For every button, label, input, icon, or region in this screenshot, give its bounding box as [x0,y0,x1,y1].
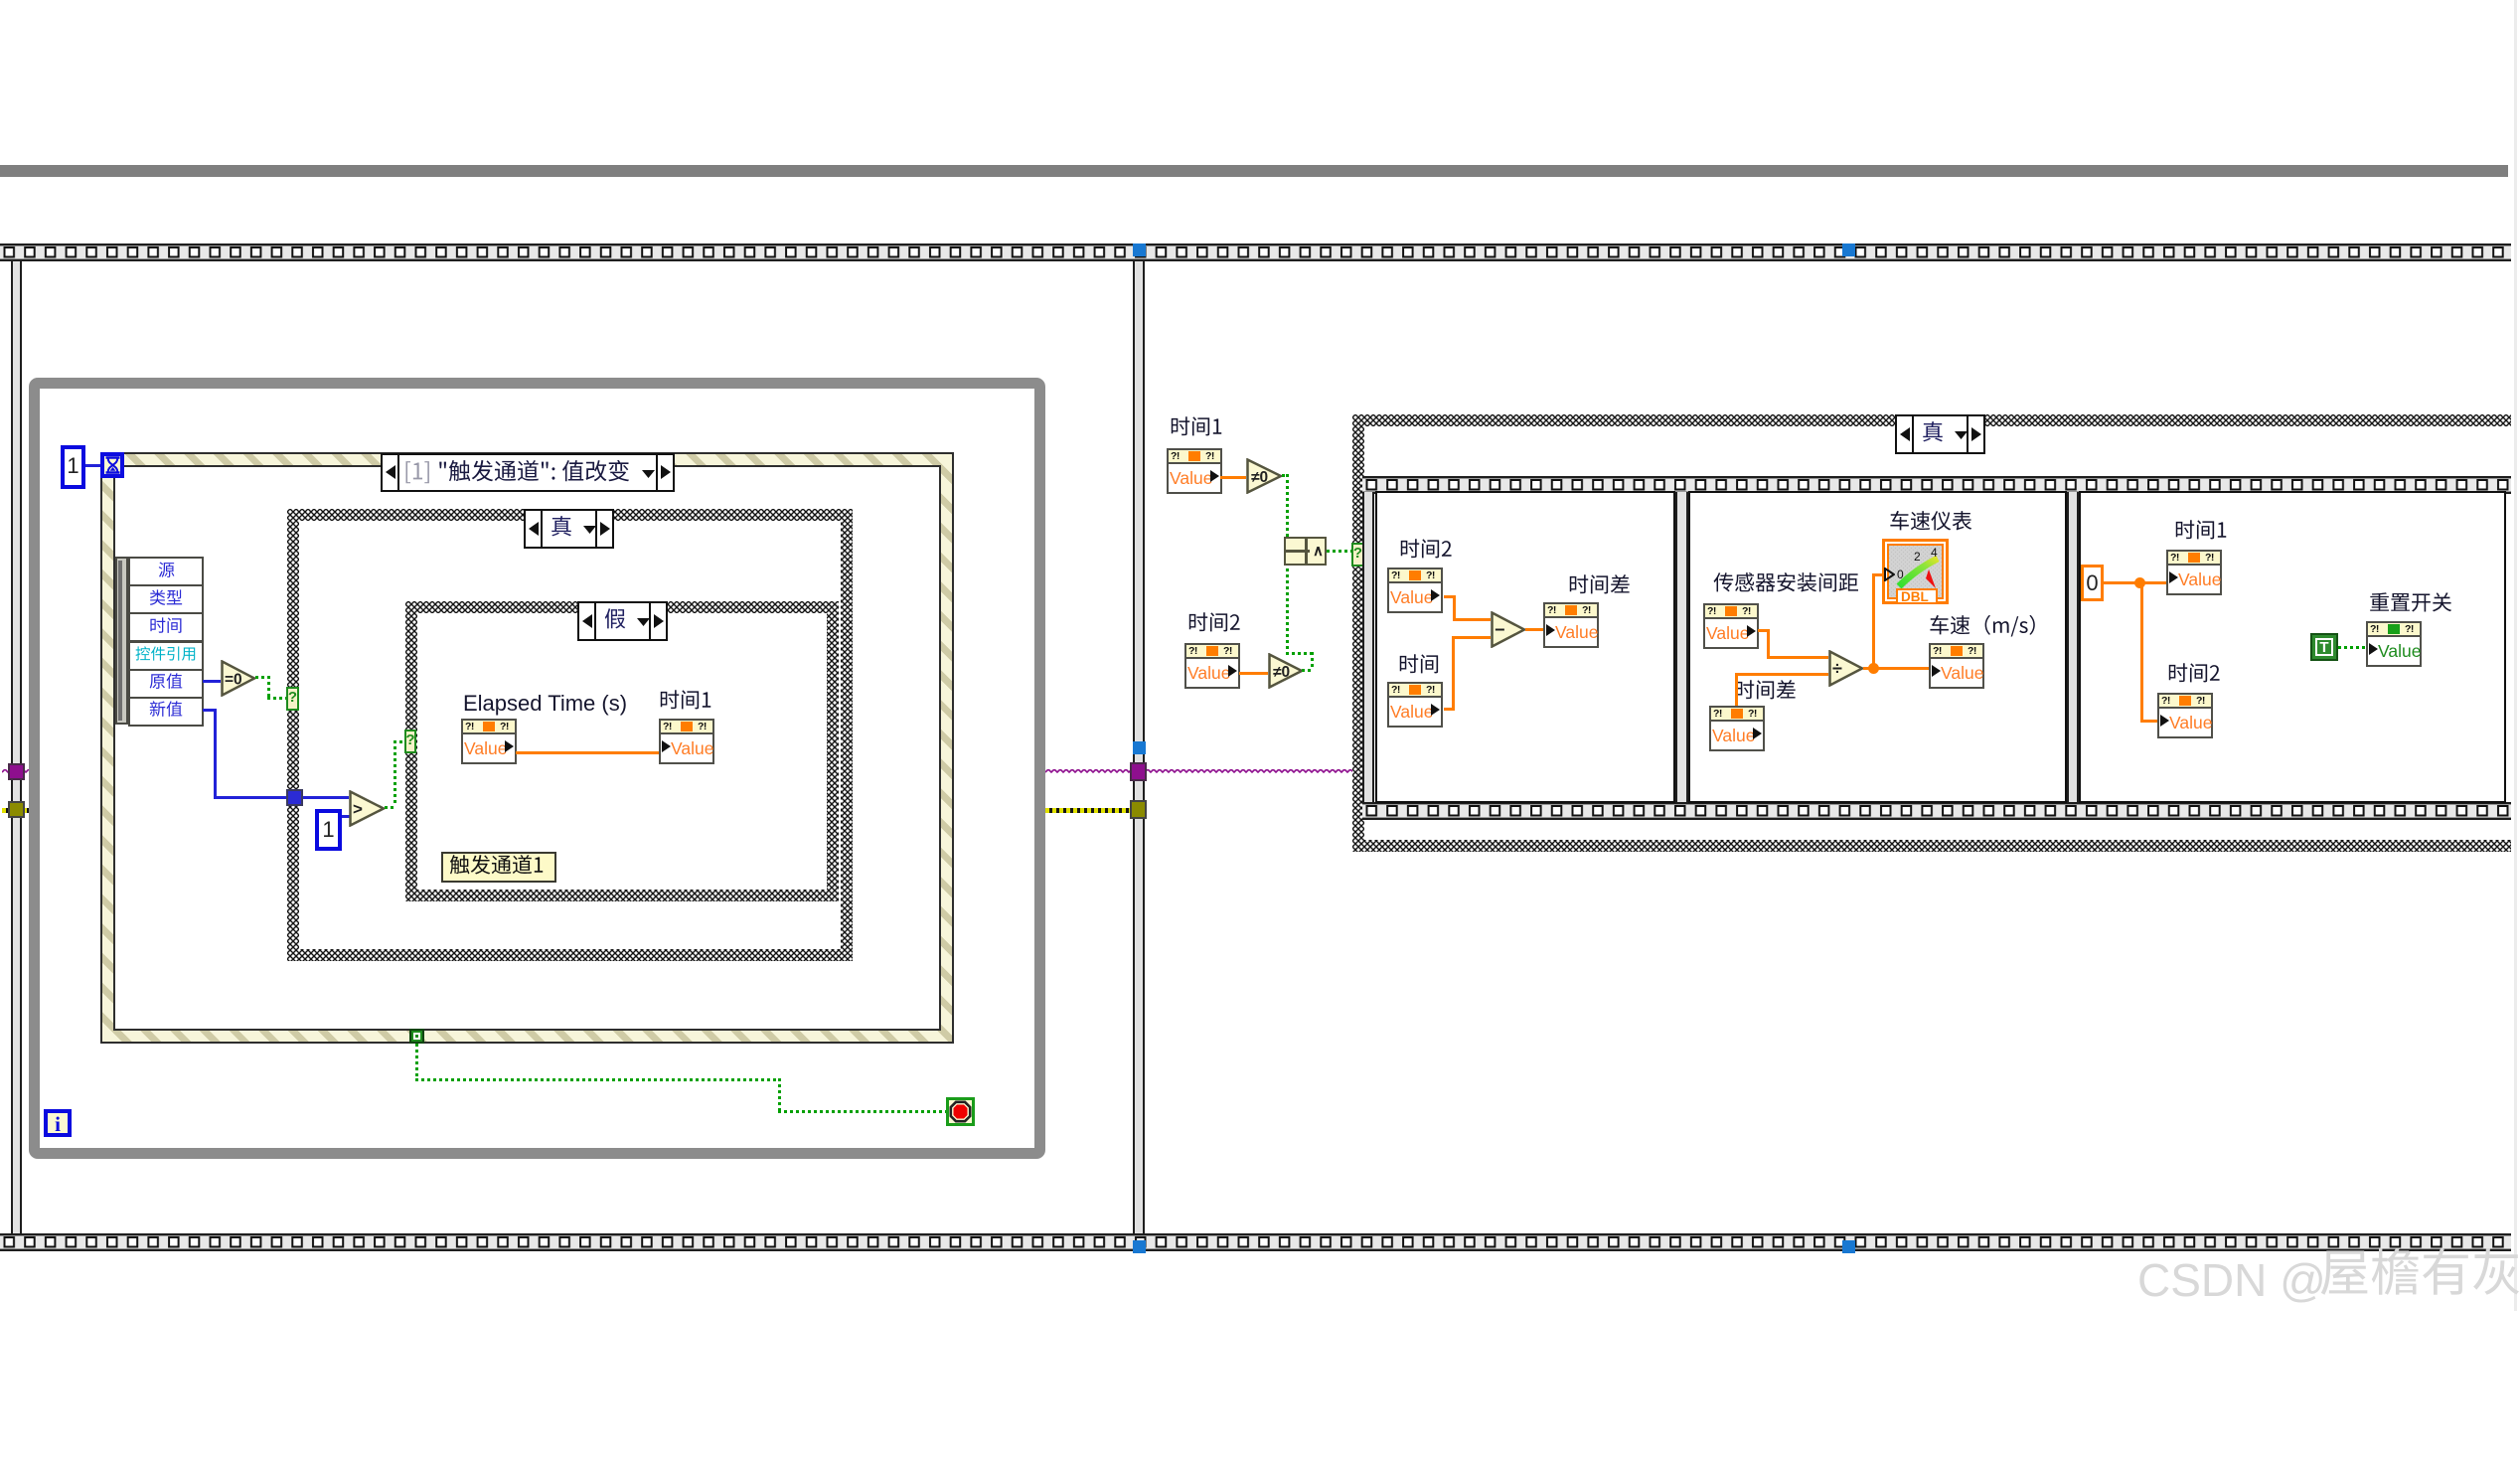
while loop [29,378,1045,1159]
free label 触发通道1 [441,852,556,883]
case structure false (inner) [405,601,839,901]
svg-text:2: 2 [1914,550,1921,564]
wire [2140,720,2157,723]
wire [1525,628,1543,631]
wire [516,751,659,754]
wire [1758,629,1770,632]
wire [1220,476,1246,479]
right case selector tunnel [1351,543,1364,567]
svg-text:=0: =0 [225,672,242,689]
flat sequence left divider [11,261,22,1233]
wire [394,740,405,743]
window edge line [2514,0,2517,1311]
sequence frame [1688,491,2067,803]
wire [214,709,217,796]
boolean constant T [2310,633,2338,661]
wire [1311,652,1314,669]
wire [203,709,217,712]
flat sequence bottom border [0,1233,2511,1251]
error wire (dark yellow) [2,808,29,813]
wire [1453,595,1456,618]
label 时间2 (right frame) [1187,613,1241,637]
label 时间差 f1 [1568,575,1631,599]
wire [778,1078,781,1110]
string wire (purple) [2,769,29,776]
wire [385,806,394,809]
sequence frame [1375,491,1675,803]
case structure true (left) [287,509,853,961]
property node 时间1 write f3 [2166,550,2222,595]
event timeout hourglass terminal [100,452,124,478]
flat sequence middle divider [1133,261,1145,1233]
wire [267,697,289,700]
constant 0 [2081,565,2104,601]
wire [394,740,396,806]
wire [267,676,270,697]
wire [415,1078,778,1081]
wire [1444,595,1456,598]
junction dot f3 [2134,577,2145,588]
wire [1767,629,1770,656]
property node 时间 read f1 [1387,682,1443,728]
olive tunnel on middle divider [1130,800,1147,819]
case selector label false [577,601,668,641]
divide node [1828,650,1864,687]
selection handle [1133,741,1146,754]
label Elapsed Time (s) [463,691,627,717]
label 时间差 f2 [1734,681,1797,705]
wire [1872,573,1875,667]
tunnel on event border (stop) [409,1029,424,1044]
property node 时间2 read f1 [1387,568,1443,613]
stop terminal [946,1097,975,1126]
label 时间 f1 [1398,655,1440,679]
wire [1872,573,1884,576]
wire [1453,618,1491,621]
property node 车速 write [1929,643,1984,689]
label 重置开关 [2369,593,2452,617]
svg-text:0: 0 [1897,568,1904,581]
wire [1767,656,1828,659]
label 时间1 (right frame) [1170,417,1223,441]
label 传感器安装间距 [1713,573,1859,597]
property node 重置开关 write [2366,621,2422,667]
inner flat sequence bottom border [1362,802,2511,820]
while loop iteration terminal i [44,1109,72,1137]
wire [1452,636,1455,708]
svg-text:4: 4 [1931,546,1938,560]
wire [1735,673,1738,706]
not-equal-zero node 2 [1268,653,1304,689]
gauge input arrow [1884,568,1895,581]
purple tunnel on left divider [8,763,25,780]
and gate [1284,537,1327,566]
greater-than node [349,790,386,827]
equal-to-zero node [221,660,256,697]
gauge terminal 车速仪表 [1882,539,1949,604]
wire [1444,708,1455,711]
selection handle [1133,243,1146,256]
wire [203,680,221,683]
inner sequence divider 1 [1675,492,1688,802]
property node 时间2 write f3 [2157,693,2213,738]
neq0 text 1 [1251,469,1268,487]
svg-text:÷: ÷ [1832,659,1842,679]
wire [1286,474,1289,543]
case selector label true (right) [1895,414,1985,454]
wire [1286,557,1289,652]
label 时间1 [659,691,712,715]
selection handle [1133,1240,1146,1253]
case structure true (right) [1352,414,2511,852]
property node 时间差 read f2 [1709,706,1765,751]
label 时间2 f3 [2167,664,2221,688]
wire [342,815,350,818]
inner case selector tunnel [404,730,416,753]
purple tunnel on middle divider [1130,762,1147,781]
olive tunnel on left divider [8,801,25,818]
selection handle [1842,243,1855,256]
wire [1286,652,1311,655]
wire [2140,581,2143,720]
label 时间2 f1 [1399,540,1453,564]
subtract node [1491,611,1526,648]
wire [1452,636,1491,639]
tunnel new value into case [286,789,303,806]
flat sequence top border [0,243,2511,261]
wire [303,796,349,799]
wire [2338,646,2366,649]
label 车速 (m/s) [1929,616,2050,640]
property node 传感器安装间距 read [1703,603,1759,649]
not-equal-zero node 1 [1246,458,1283,494]
property node Elapsed Time (s) [461,719,517,764]
wire [778,1110,946,1113]
toolbar divider bar [0,165,2508,177]
wire [415,1044,418,1078]
wire [1302,669,1313,672]
wire [214,796,289,799]
inner sequence divider 2 [2067,492,2079,802]
wire [1735,673,1828,676]
junction dot [1868,663,1879,674]
property node 时间差 write f1 [1543,602,1599,648]
event structure [100,452,954,1044]
wire [1282,474,1288,477]
wire [1327,550,1352,553]
case selector label true [524,509,614,549]
case selector tunnel [286,687,299,711]
selection handle [1842,1240,1855,1253]
wire [85,464,100,467]
property node 时间1 write [659,719,714,764]
wire [1863,667,1929,670]
watermark [2137,1253,2326,1307]
label 时间1 f3 [2174,521,2228,545]
event structure selector label [381,453,675,492]
label 车速仪表 [1889,512,1972,536]
wire [1239,672,1268,675]
constant 1 [315,809,342,851]
sequence frame [2079,491,2506,803]
inner flat sequence top border [1362,476,2511,494]
gauge DBL tag [1896,588,1938,604]
svg-text:>: > [353,800,363,819]
wire [2104,581,2166,584]
neq0 text 2 [1273,664,1290,682]
timeout constant 1 [61,445,85,489]
event data node [115,557,128,725]
inner sequence left edge [1362,492,1374,802]
wire [255,676,267,679]
svg-text:−: − [1495,620,1505,640]
property node 时间1 read [1167,448,1222,494]
property node 时间2 read [1184,643,1240,689]
